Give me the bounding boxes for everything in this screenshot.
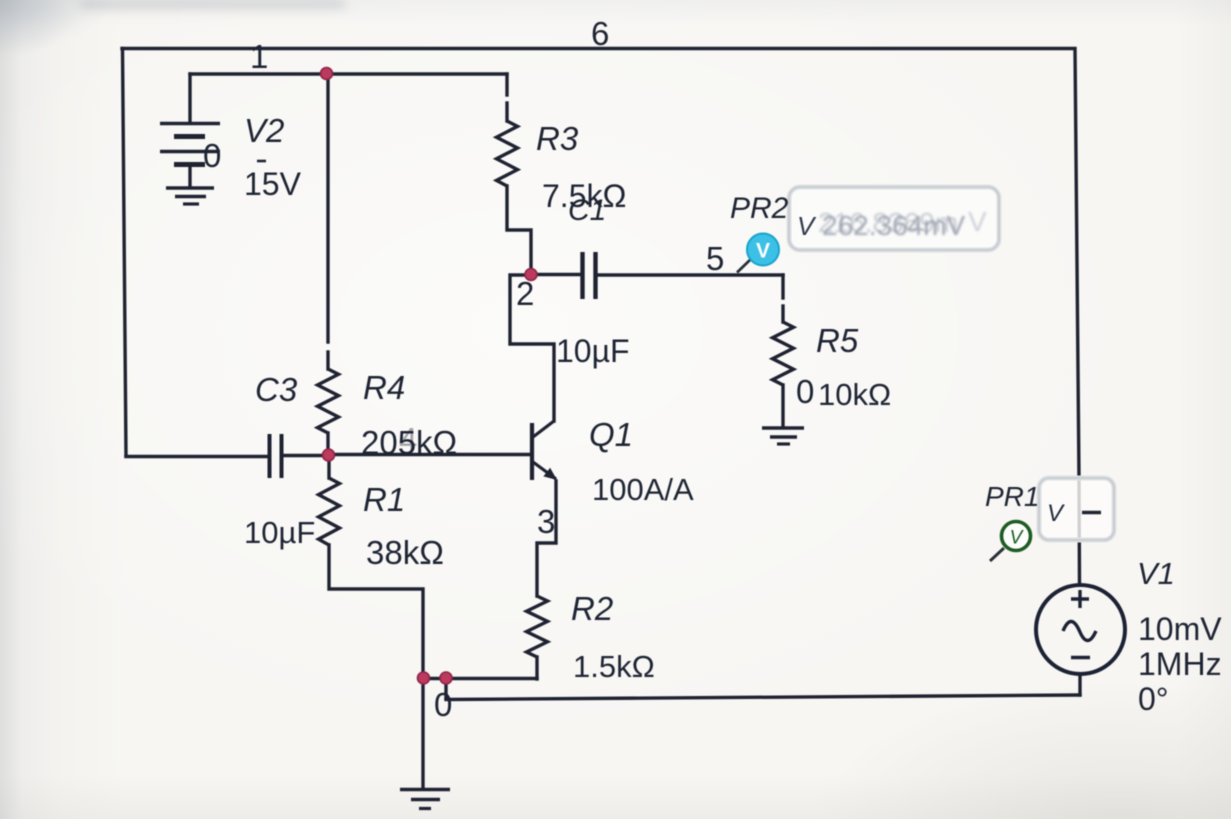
svg-text:38kΩ: 38kΩ	[366, 534, 444, 571]
svg-text:0: 0	[796, 373, 814, 410]
svg-text:V2: V2	[244, 112, 284, 149]
svg-text:PR1: PR1	[985, 481, 1039, 512]
svg-text:100A/A: 100A/A	[592, 472, 694, 507]
svg-text:2: 2	[516, 275, 534, 312]
svg-text:V: V	[756, 240, 770, 263]
svg-text:10µF: 10µF	[244, 515, 315, 550]
svg-text:1: 1	[250, 38, 268, 75]
svg-text:1MHz: 1MHz	[1138, 646, 1222, 682]
svg-text:PR2: PR2	[730, 192, 789, 225]
svg-text:R3: R3	[536, 120, 579, 157]
svg-text:3: 3	[537, 503, 555, 540]
svg-text:0°: 0°	[1138, 681, 1169, 717]
svg-text:V: V	[797, 211, 817, 241]
svg-text:10kΩ: 10kΩ	[818, 377, 891, 412]
svg-text:C3: C3	[255, 371, 298, 408]
svg-text:R4: R4	[363, 369, 405, 406]
svg-text:216.8369m: 216.8369m	[818, 207, 958, 238]
svg-text:10µF: 10µF	[556, 333, 630, 369]
svg-text:10mV: 10mV	[1138, 611, 1222, 647]
svg-text:V: V	[968, 206, 987, 237]
svg-text:1.5kΩ: 1.5kΩ	[573, 649, 655, 684]
svg-text:R5: R5	[816, 322, 859, 359]
svg-text:0: 0	[203, 137, 221, 174]
svg-text:R2: R2	[571, 590, 613, 627]
svg-text:6: 6	[591, 15, 609, 52]
svg-text:R1: R1	[363, 481, 405, 518]
svg-text:Q1: Q1	[589, 416, 633, 453]
svg-text:5: 5	[706, 240, 724, 277]
svg-text:15V: 15V	[244, 166, 302, 202]
svg-text:V1: V1	[1137, 556, 1175, 591]
svg-text:C1: C1	[568, 194, 606, 227]
svg-text:0: 0	[434, 686, 452, 723]
svg-text:V: V	[1047, 500, 1065, 527]
svg-text:4: 4	[399, 421, 417, 458]
